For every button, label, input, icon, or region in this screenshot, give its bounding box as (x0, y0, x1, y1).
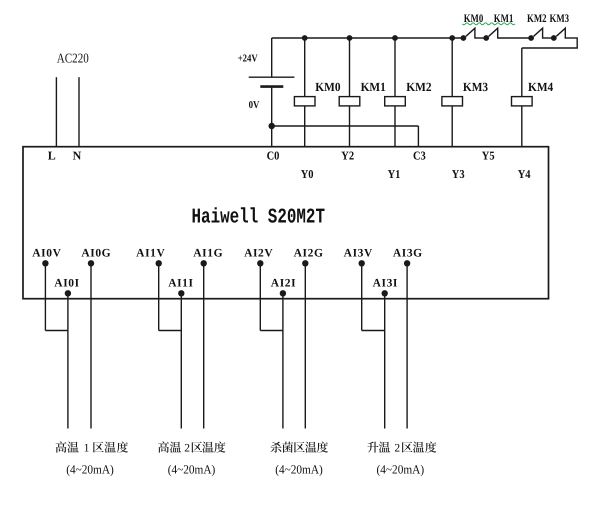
wire KM0 coil feed (304, 38, 306, 97)
label sensor 2: high-temp zone 2 temperature (158, 441, 225, 452)
label sensor 3: sterilization zone temperature (270, 441, 328, 452)
node junction 0V rail (269, 123, 275, 129)
svg-text:AI0V: AI0V (32, 247, 61, 259)
battery V1 24V short plate (260, 85, 283, 88)
wire +24V bus (272, 37, 464, 39)
svg-text:Y2: Y2 (341, 149, 354, 163)
node AI1V terminal (156, 260, 162, 266)
svg-text:(4~20mA): (4~20mA) (377, 462, 425, 476)
wire KM4 coil to output (521, 106, 523, 147)
svg-text:Y4: Y4 (518, 167, 531, 181)
svg-text:Y5: Y5 (482, 149, 495, 163)
svg-text:Haiwell S20M2T: Haiwell S20M2T (192, 207, 326, 230)
wire AI0I sensor lead (67, 293, 69, 428)
svg-text:(4~20mA): (4~20mA) (66, 462, 114, 476)
svg-text:AI1V: AI1V (136, 247, 165, 259)
svg-text:1: 1 (84, 443, 90, 455)
contact KM1 blade (489, 28, 498, 38)
label sensor 4: heat-up zone 2 temperature (367, 441, 436, 452)
wire AI1V jumper down (158, 263, 160, 330)
wire AI0V jumper down (44, 263, 46, 330)
node bus junction KM3 branch (449, 35, 455, 41)
svg-text:AI3V: AI3V (344, 247, 373, 259)
node AI0V terminal (42, 260, 48, 266)
wire KM2 coil to output (394, 106, 396, 147)
contact KM1 NO terminal dot (483, 35, 489, 41)
relay coil KM2 (385, 97, 406, 106)
contact KM2 blade (534, 28, 543, 38)
wire AI0G sensor lead (90, 263, 92, 428)
relay coil KM1 (339, 97, 360, 106)
label sensor 1: high-temp zone 1 temperature (56, 441, 128, 452)
contact KM0 blade (466, 28, 475, 38)
svg-text:KM3: KM3 (550, 13, 570, 25)
svg-text:AI1I: AI1I (168, 277, 193, 289)
battery V1 24V long plate (249, 76, 295, 78)
wire AI2G sensor lead (304, 263, 306, 428)
wire AI2V jumper down (259, 263, 261, 330)
wire KM3 coil to output (451, 106, 453, 147)
svg-text:KM2: KM2 (406, 80, 431, 94)
wire contact chain segment (475, 37, 486, 39)
wire AI2V-AI2I jumper (260, 330, 283, 332)
wire AI0V-AI0I jumper (45, 330, 68, 332)
node bus junction KM2 branch (392, 35, 398, 41)
wire KM3 coil feed (451, 38, 453, 97)
node AI0G terminal (88, 260, 94, 266)
svg-text:AI2I: AI2I (271, 277, 296, 289)
node AI1G terminal (201, 260, 207, 266)
node bus junction KM0 branch (302, 35, 308, 41)
svg-text:Y0: Y0 (301, 167, 314, 181)
svg-text:AI3G: AI3G (393, 247, 423, 259)
node AI2V terminal (257, 260, 263, 266)
svg-text:2: 2 (184, 443, 190, 455)
wire AI2I sensor lead (282, 293, 284, 428)
contact KM3 blade (556, 28, 565, 38)
svg-text:L: L (48, 149, 56, 163)
node AI3G terminal (404, 260, 410, 266)
svg-text:KM3: KM3 (463, 80, 488, 94)
svg-text:Y3: Y3 (452, 167, 465, 181)
relay coil KM0 (294, 97, 315, 106)
spellcheck squiggle under KM0 KM1 (462, 23, 515, 25)
PLC U1 Haiwell S20M2T body (23, 147, 549, 299)
node AI2G terminal (302, 260, 308, 266)
wire AI3I sensor lead (384, 293, 386, 428)
wire L phase (55, 77, 57, 147)
wire AI1V-AI1I jumper (159, 330, 182, 332)
svg-text:KM1: KM1 (361, 80, 386, 94)
relay coil KM3 (442, 97, 463, 106)
wire N neutral (78, 77, 80, 147)
wire contact chain segment (565, 37, 577, 39)
svg-text:Y1: Y1 (388, 167, 401, 181)
svg-text:AI2V: AI2V (244, 247, 273, 259)
svg-text:C3: C3 (413, 149, 426, 163)
contact KM3 NO terminal dot (551, 35, 557, 41)
node AI3I terminal (382, 290, 388, 296)
contact KM0 NO terminal dot (461, 35, 467, 41)
node AI0I terminal (65, 290, 71, 296)
wire KM0 coil to output (304, 106, 306, 147)
wire AI3V jumper down (361, 263, 363, 330)
node bus junction KM1 branch (347, 35, 353, 41)
node AI1I terminal (178, 290, 184, 296)
svg-text:+24V: +24V (238, 54, 258, 65)
wire AI3V-AI3I jumper (362, 330, 385, 332)
svg-text:AI3I: AI3I (373, 277, 398, 289)
battery +24V positive lead (271, 38, 273, 77)
svg-text:(4~20mA): (4~20mA) (275, 462, 323, 476)
svg-text:(4~20mA): (4~20mA) (168, 462, 216, 476)
wire KM4 coil feed (521, 48, 523, 97)
svg-text:C0: C0 (267, 149, 280, 163)
wire AI1I sensor lead (180, 293, 182, 428)
svg-text:0V: 0V (249, 100, 260, 111)
wire KM1 coil feed (349, 38, 351, 97)
wire KM2 coil feed (394, 38, 396, 97)
node AI2I terminal (280, 290, 286, 296)
wire chain right drop (522, 37, 577, 48)
svg-text:AI0I: AI0I (54, 277, 79, 289)
node AI3V terminal (359, 260, 365, 266)
svg-text:AC220: AC220 (57, 51, 89, 66)
svg-text:AI0G: AI0G (81, 247, 111, 259)
svg-text:AI1G: AI1G (193, 247, 223, 259)
wire KM1 coil to output (349, 106, 351, 147)
svg-text:KM0: KM0 (315, 80, 340, 94)
relay coil KM4 (512, 97, 533, 106)
svg-text:KM2: KM2 (527, 13, 547, 25)
battery negative lead to 0V (271, 87, 273, 147)
wire 0V rail horizontal (272, 125, 419, 127)
wire contact chain segment (498, 37, 531, 39)
svg-text:AI2G: AI2G (294, 247, 324, 259)
contact KM2 NO terminal dot (528, 35, 534, 41)
svg-text:KM4: KM4 (528, 80, 554, 94)
wire contact chain segment (542, 37, 554, 39)
svg-text:2: 2 (394, 443, 400, 455)
wire 0V drop to C3 (417, 126, 419, 147)
svg-text:N: N (73, 149, 82, 163)
wire AI1G sensor lead (203, 263, 205, 428)
wire AI3G sensor lead (406, 263, 408, 428)
